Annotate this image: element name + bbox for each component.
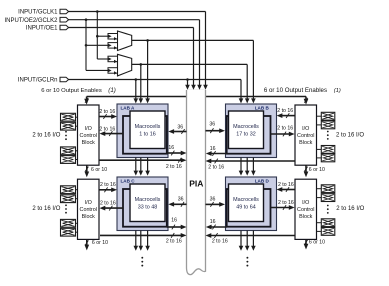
mux input buffer mux1-b bbox=[108, 43, 118, 50]
svg-text:2 to 16: 2 to 16 bbox=[100, 182, 116, 188]
I/O pin cell A1 bbox=[61, 113, 76, 121]
svg-text:17 to 32: 17 to 32 bbox=[236, 132, 255, 138]
I/O control block B bbox=[295, 105, 317, 165]
mux 1 (output enable select) bbox=[118, 31, 132, 51]
svg-text:Macrocells: Macrocells bbox=[233, 124, 259, 130]
svg-text:2 to 16: 2 to 16 bbox=[166, 239, 182, 245]
bus PIA to LAB D 36 bbox=[206, 203, 221, 205]
LAB A outer block bbox=[117, 104, 168, 158]
svg-text:LAB A: LAB A bbox=[121, 105, 136, 110]
svg-text:Macrocells: Macrocells bbox=[135, 124, 161, 130]
LAB B outer block bbox=[226, 104, 277, 158]
bus I/O B to LAB B 2-to-16 bbox=[281, 115, 295, 117]
svg-text:I/O: I/O bbox=[302, 200, 309, 206]
wire drop mux2 to LAB A bbox=[140, 64, 142, 99]
wire pin C3 bbox=[76, 222, 78, 224]
wire pin A2 bbox=[76, 125, 78, 127]
wire pin A4 bbox=[76, 159, 78, 161]
I/O control block C bbox=[78, 179, 100, 239]
bus LAB A to PIA 16 bbox=[167, 152, 181, 154]
svg-text:6 or 10: 6 or 10 bbox=[309, 167, 325, 173]
wire LAB A to LAB C drop 2 bbox=[140, 158, 142, 172]
svg-text:33 to 48: 33 to 48 bbox=[138, 205, 157, 211]
input pin INPUT/OE2/GCLK2 bbox=[60, 17, 69, 22]
svg-text:36: 36 bbox=[210, 197, 216, 203]
svg-text:2 to 16 I/O: 2 to 16 I/O bbox=[336, 132, 364, 138]
wire mux2 output bbox=[132, 63, 248, 65]
junction GCLRn to PIA drop bbox=[186, 78, 189, 81]
ellipsis I/O D bbox=[327, 205, 329, 214]
svg-text:2 to 16 I/O: 2 to 16 I/O bbox=[32, 132, 60, 138]
wire pin B4 bbox=[317, 157, 322, 159]
wire LAB A to LAB C drop 3 bbox=[147, 158, 149, 172]
wire LAB C bottom drop 1 bbox=[135, 231, 137, 247]
svg-text:Macrocells: Macrocells bbox=[135, 197, 161, 203]
wire output enables left bbox=[87, 96, 187, 98]
svg-text:PIA: PIA bbox=[189, 178, 203, 188]
wire OE left drop to I/O block A bbox=[86, 97, 88, 101]
wire LAB A to LAB C drop 1 bbox=[135, 158, 137, 172]
wire drop GCLRn to PIA bbox=[187, 80, 189, 87]
wire pin B3 bbox=[317, 148, 322, 150]
ellipsis I/O B bbox=[327, 131, 329, 140]
svg-text:I/O: I/O bbox=[85, 126, 92, 132]
svg-text:2 to 16: 2 to 16 bbox=[166, 164, 182, 170]
wire OE right drop to I/O block B bbox=[305, 97, 307, 101]
svg-text:6 or 10: 6 or 10 bbox=[309, 240, 325, 246]
mux input buffer mux2-b bbox=[108, 68, 118, 75]
svg-text:16: 16 bbox=[168, 145, 174, 151]
I/O pin cell C3 bbox=[61, 219, 76, 227]
wire pin D3 bbox=[317, 222, 322, 224]
wire mux1 output bbox=[132, 39, 254, 41]
wire GCLRn row bbox=[68, 79, 241, 81]
svg-text:1 to 16: 1 to 16 bbox=[139, 132, 156, 138]
svg-text:(1): (1) bbox=[108, 87, 116, 94]
svg-text:2 to 16: 2 to 16 bbox=[277, 108, 293, 114]
bus I/O D feedback to PIA 2-to-16 bbox=[210, 235, 295, 237]
svg-text:INPUT/OE2/GCLK2: INPUT/OE2/GCLK2 bbox=[4, 18, 58, 24]
bus I/O A to I/O C 6-or-10 bbox=[86, 165, 88, 173]
mux 2 (output enable select) bbox=[118, 54, 132, 76]
LAB A macrocell box bbox=[130, 111, 165, 149]
wire LAB B to LAB D drop 3 bbox=[252, 158, 254, 172]
LAB D macrocell box bbox=[229, 184, 264, 222]
svg-text:36: 36 bbox=[178, 197, 184, 203]
svg-text:2 to 16: 2 to 16 bbox=[99, 127, 115, 133]
svg-text:Block: Block bbox=[82, 140, 95, 146]
wire pin C2 bbox=[76, 198, 78, 200]
wire OE2/GCLK2 row bbox=[69, 19, 200, 21]
ellipsis below LAB C bbox=[141, 257, 143, 267]
svg-text:36: 36 bbox=[177, 124, 183, 130]
junction GCLK1/mux column bbox=[96, 10, 99, 13]
bus I/O A to LAB A 2-to-16 bbox=[99, 116, 112, 118]
svg-text:(1): (1) bbox=[334, 88, 341, 94]
LAB B macrocell box bbox=[229, 111, 264, 149]
I/O pin cell B3 bbox=[321, 146, 335, 154]
input pin INPUT/OE1 bbox=[60, 25, 69, 30]
wire pin A3 bbox=[76, 150, 78, 152]
svg-text:49 to 64: 49 to 64 bbox=[236, 205, 255, 211]
wire drop mux1 to LAB B bbox=[252, 40, 254, 99]
svg-text:2 to 16 I/O: 2 to 16 I/O bbox=[32, 206, 60, 212]
wire stub to mux1 input a bbox=[97, 35, 108, 37]
svg-text:INPUT/OE1: INPUT/OE1 bbox=[26, 26, 58, 32]
junction mux1 to LAB A drop bbox=[146, 39, 149, 42]
wire pin A1 bbox=[76, 116, 78, 118]
bus I/O A feedback to PIA 2-to-16 bbox=[99, 159, 182, 161]
svg-text:6 or 10: 6 or 10 bbox=[91, 167, 107, 173]
LAB C outer block bbox=[117, 177, 168, 231]
wire drop GCLK1 to PIA bbox=[205, 12, 207, 87]
I/O pin cell D3 bbox=[321, 219, 335, 227]
svg-text:2 to 16: 2 to 16 bbox=[208, 164, 224, 170]
svg-text:16: 16 bbox=[210, 146, 216, 152]
junction GCLRn to LAB A drop bbox=[135, 78, 138, 81]
bus I/O B feedback to PIA 2-to-16 bbox=[210, 160, 295, 162]
wire drop mux2 to LAB B bbox=[246, 64, 248, 99]
bus I/O C feedback to PIA 2-to-16 bbox=[100, 234, 182, 236]
wire pin D1 bbox=[317, 188, 322, 190]
I/O pin cell B2 bbox=[321, 121, 335, 129]
mux input buffer mux2-a bbox=[108, 56, 118, 63]
wire pin B2 bbox=[317, 124, 322, 126]
bus LAB A to I/O A 2-to-16 bbox=[104, 133, 123, 135]
I/O pin cell A3 bbox=[61, 147, 76, 155]
wire LAB D bottom drop 3 bbox=[252, 231, 254, 247]
wire GCLK1 row bbox=[69, 11, 206, 13]
input pin INPUT/GCLRn bbox=[60, 77, 69, 82]
bus I/O B to I/O D 6-or-10 bbox=[305, 165, 307, 173]
wire LAB C bottom drop 2 bbox=[140, 231, 142, 247]
wire pin B1 bbox=[317, 115, 322, 117]
bus LAB B to I/O B 2-to-16 bbox=[271, 133, 291, 135]
wire pin C1 bbox=[76, 189, 78, 191]
svg-text:Control: Control bbox=[80, 133, 97, 139]
wire LAB D bottom drop 2 bbox=[246, 231, 248, 247]
PIA interconnect bar bbox=[187, 90, 206, 92]
svg-text:INPUT/GCLRn: INPUT/GCLRn bbox=[18, 78, 58, 84]
wire drop OE2/GCLK2 to PIA bbox=[199, 20, 201, 86]
bus I/O C down 6-or-10 bbox=[86, 239, 88, 246]
bus LAB C to PIA 16 bbox=[167, 226, 181, 228]
wire drop OE1 to PIA bbox=[193, 28, 195, 87]
svg-text:2 to 16: 2 to 16 bbox=[278, 182, 294, 188]
bus I/O C to LAB C 2-to-16 bbox=[99, 189, 112, 191]
bus I/O D down 6-or-10 bbox=[305, 239, 307, 245]
wire pin D4 bbox=[317, 230, 322, 232]
ellipsis below LAB D bbox=[246, 257, 248, 267]
wire drop GCLRn to LAB B bbox=[240, 80, 242, 100]
svg-text:LAB C: LAB C bbox=[121, 178, 136, 183]
wire drop mux1 to LAB A bbox=[147, 40, 149, 99]
I/O pin cell B1 bbox=[321, 112, 335, 120]
wire LAB D bottom drop 1 bbox=[240, 231, 242, 247]
input pin INPUT/GCLK1 bbox=[60, 9, 69, 14]
bus LAB D to I/O D 2-to-16 bbox=[271, 207, 291, 209]
svg-text:Block: Block bbox=[299, 214, 312, 220]
LAB C macrocell array back layer bbox=[123, 189, 167, 227]
svg-text:16: 16 bbox=[210, 219, 216, 225]
svg-text:6 or 10 Output Enables: 6 or 10 Output Enables bbox=[41, 88, 102, 94]
svg-text:2 to 16: 2 to 16 bbox=[99, 109, 115, 115]
bus LAB B to PIA 16 bbox=[210, 153, 226, 155]
bus I/O D to LAB D 2-to-16 bbox=[281, 189, 295, 191]
I/O pin cell C4 bbox=[61, 228, 76, 236]
svg-text:Macrocells: Macrocells bbox=[233, 197, 259, 203]
svg-text:Block: Block bbox=[82, 214, 95, 220]
LAB A macrocell array back layer bbox=[123, 116, 167, 154]
svg-text:I/O: I/O bbox=[302, 126, 309, 132]
bus LAB C to I/O C 2-to-16 bbox=[104, 207, 123, 209]
svg-text:Control: Control bbox=[297, 133, 314, 139]
svg-text:2 to 16: 2 to 16 bbox=[277, 125, 293, 131]
LAB D macrocell array back layer bbox=[227, 189, 271, 227]
LAB D outer block bbox=[226, 177, 277, 231]
I/O pin cell C1 bbox=[61, 186, 76, 194]
wire pin D2 bbox=[317, 197, 322, 199]
svg-text:16: 16 bbox=[171, 218, 177, 224]
svg-text:Block: Block bbox=[299, 140, 312, 146]
svg-text:6 or 10: 6 or 10 bbox=[92, 240, 108, 246]
wire drop GCLRn to LAB A bbox=[135, 80, 137, 100]
wire LAB C bottom drop 3 bbox=[147, 231, 149, 247]
svg-text:2 to 16: 2 to 16 bbox=[100, 201, 116, 207]
bus PIA to LAB A 36 bbox=[173, 131, 187, 133]
ellipsis I/O C bbox=[65, 204, 67, 213]
I/O pin cell D2 bbox=[321, 194, 335, 202]
svg-text:Control: Control bbox=[297, 207, 314, 213]
svg-text:I/O: I/O bbox=[85, 200, 92, 206]
junction mux1 input a bbox=[96, 35, 99, 38]
svg-text:LAB B: LAB B bbox=[255, 105, 270, 110]
svg-text:LAB D: LAB D bbox=[255, 178, 270, 183]
ellipsis I/O A bbox=[65, 131, 67, 140]
svg-text:36: 36 bbox=[209, 122, 215, 128]
svg-text:Control: Control bbox=[80, 207, 97, 213]
wire LAB B to LAB D drop 1 bbox=[240, 158, 242, 172]
I/O control block A bbox=[78, 105, 100, 165]
I/O pin cell D1 bbox=[321, 185, 335, 193]
bus PIA to LAB B 36 bbox=[206, 130, 221, 132]
wire mux column B vertical bbox=[85, 20, 87, 71]
wire mux column A vertical bbox=[96, 12, 98, 60]
I/O pin cell A4 bbox=[61, 156, 76, 164]
I/O pin cell D4 bbox=[321, 228, 335, 236]
I/O pin cell C2 bbox=[61, 195, 76, 203]
wire output enables right bbox=[206, 96, 307, 98]
wire stub to mux2 input a bbox=[97, 58, 108, 60]
bus PIA to LAB C 36 bbox=[173, 203, 187, 205]
svg-text:2 to 16: 2 to 16 bbox=[278, 200, 294, 206]
svg-text:INPUT/GCLK1: INPUT/GCLK1 bbox=[18, 10, 58, 16]
svg-text:2 to 16 I/O: 2 to 16 I/O bbox=[336, 206, 364, 212]
I/O control block D bbox=[295, 179, 317, 239]
bus LAB D to PIA 16 bbox=[210, 226, 226, 228]
wire stub to mux2 input b bbox=[86, 69, 108, 71]
svg-text:2 to 16: 2 to 16 bbox=[212, 239, 228, 245]
mux input buffer mux1-a bbox=[108, 34, 118, 41]
I/O pin cell A2 bbox=[61, 122, 76, 130]
LAB C macrocell box bbox=[130, 184, 165, 222]
junction mux1 input b bbox=[85, 44, 88, 47]
svg-text:6 or 10 Output Enables: 6 or 10 Output Enables bbox=[264, 87, 327, 94]
junction mux2 to LAB A drop bbox=[140, 63, 143, 66]
LAB B macrocell array back layer bbox=[227, 116, 271, 154]
wire pin C4 bbox=[76, 231, 78, 233]
wire LAB B to LAB D drop 2 bbox=[246, 158, 248, 172]
I/O pin cell B4 bbox=[321, 154, 335, 162]
wire OE1 row bbox=[69, 27, 194, 29]
junction OE2/mux column bbox=[85, 18, 88, 21]
wire stub to mux1 input b bbox=[86, 44, 108, 46]
